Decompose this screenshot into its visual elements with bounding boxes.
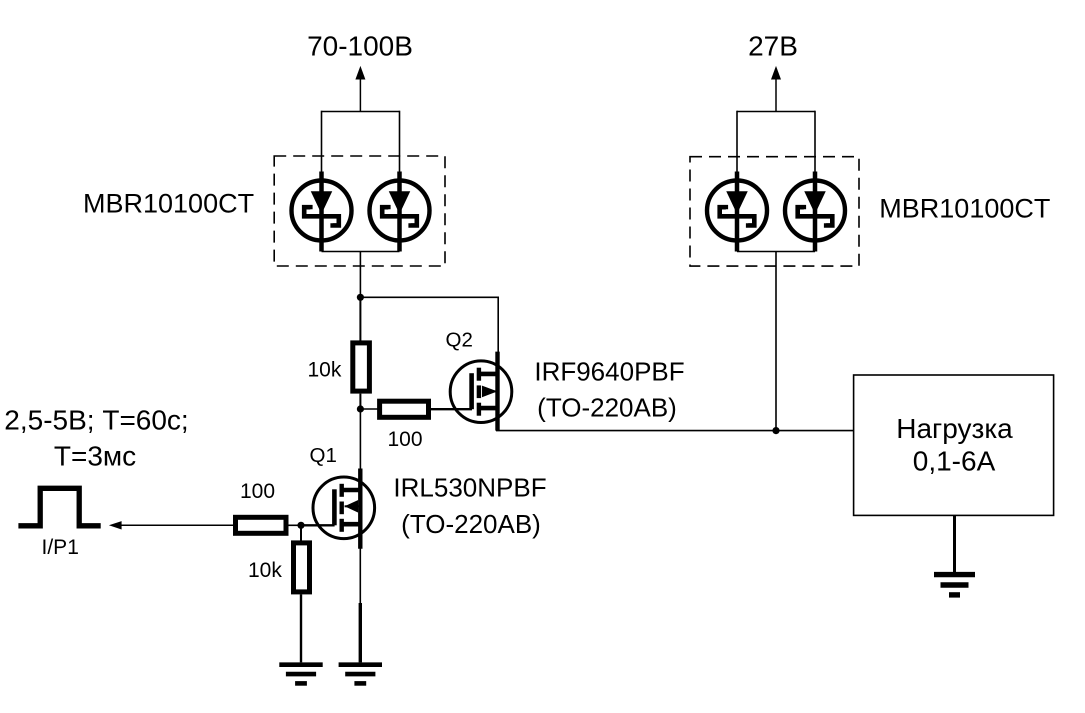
wire R3 to Q1 gate <box>286 524 301 526</box>
svg-text:100: 100 <box>240 480 275 503</box>
wire drop to D2 anode <box>399 111 401 176</box>
svg-text:2,5-5В; Т=60с;: 2,5-5В; Т=60с; <box>4 404 188 435</box>
svg-text:IRF9640PBF: IRF9640PBF <box>534 357 684 387</box>
diode D2 (schottky, left pair) <box>370 172 430 252</box>
wire Q1 source down <box>359 548 361 604</box>
wire node A down to R1 <box>359 297 361 341</box>
wire node C to R4 <box>300 525 302 543</box>
svg-text:0,1-6А: 0,1-6А <box>913 446 996 477</box>
svg-text:Нагрузка: Нагрузка <box>896 413 1013 444</box>
resistor R4 10k <box>294 543 310 592</box>
wire R1 to node B <box>359 394 361 409</box>
power arrow 27V <box>771 66 781 112</box>
svg-text:100: 100 <box>388 428 423 451</box>
svg-text:(TO-220AB): (TO-220AB) <box>401 509 541 539</box>
transistor Q1 IRL530 (N-MOSFET) <box>313 469 375 549</box>
wire cathode bus left pair <box>322 251 400 253</box>
input arrow to I/P1 <box>109 521 235 529</box>
ground under Q1 <box>339 665 382 684</box>
svg-text:Т=3мс: Т=3мс <box>54 440 136 471</box>
wire cathode tap to node D <box>775 252 777 431</box>
wire load to ground <box>953 515 956 572</box>
diode D3 (schottky, right pair) <box>707 172 767 252</box>
label input pulse spec <box>4 404 188 471</box>
wire cathode bus right pair <box>737 251 815 253</box>
wire node B to R2 <box>360 408 380 410</box>
wire top bus right <box>737 111 815 113</box>
wire drop to D4 anode <box>814 111 816 176</box>
power arrow 70-100V <box>355 66 365 112</box>
svg-text:Q1: Q1 <box>310 444 337 467</box>
wire node B down to Q1 drain <box>359 409 361 470</box>
ground under load <box>934 575 975 595</box>
resistor R2 100 <box>380 401 429 417</box>
pulse waveform symbol <box>18 488 100 526</box>
wire cathode tap down to node A <box>359 252 361 298</box>
dashed box MBR10100CT right <box>690 157 859 266</box>
diode D1 (schottky, left pair) <box>292 172 352 252</box>
node C junction <box>297 522 304 529</box>
svg-text:MBR10100CT: MBR10100CT <box>83 189 254 219</box>
node A junction <box>357 294 364 301</box>
node D junction <box>772 427 779 434</box>
wire top bus left <box>322 111 400 113</box>
wire node A to Q2 source <box>360 297 498 352</box>
svg-text:Q2: Q2 <box>446 329 473 352</box>
wire R2 to Q2 gate <box>429 408 473 410</box>
ground stub Q1 source <box>359 603 362 662</box>
diode D4 (schottky, right pair) <box>785 172 845 252</box>
svg-text:10k: 10k <box>248 559 282 582</box>
svg-text:(TO-220AB): (TO-220AB) <box>537 393 677 423</box>
transistor Q2 IRF9640 (P-MOSFET) <box>450 352 512 431</box>
wire R4 to ground <box>300 594 302 662</box>
node B junction <box>357 405 364 412</box>
svg-text:70-100В: 70-100В <box>307 31 413 62</box>
svg-text:I/P1: I/P1 <box>42 536 79 559</box>
svg-text:10k: 10k <box>308 358 342 381</box>
wire drop to D1 anode <box>321 111 323 176</box>
svg-text:MBR10100CT: MBR10100CT <box>879 194 1050 224</box>
svg-text:IRL530NPBF: IRL530NPBF <box>393 473 546 503</box>
load box <box>854 375 1054 515</box>
resistor R3 100 <box>236 517 287 533</box>
ground under R4 <box>279 665 322 684</box>
wire drop to D3 anode <box>736 111 738 176</box>
resistor R1 10k <box>353 343 370 391</box>
label load Нагрузка 0,1-6А <box>896 413 1013 477</box>
wire Q2 drain to load <box>496 430 854 432</box>
dashed box MBR10100CT left <box>274 156 445 266</box>
svg-text:27В: 27В <box>748 31 798 62</box>
